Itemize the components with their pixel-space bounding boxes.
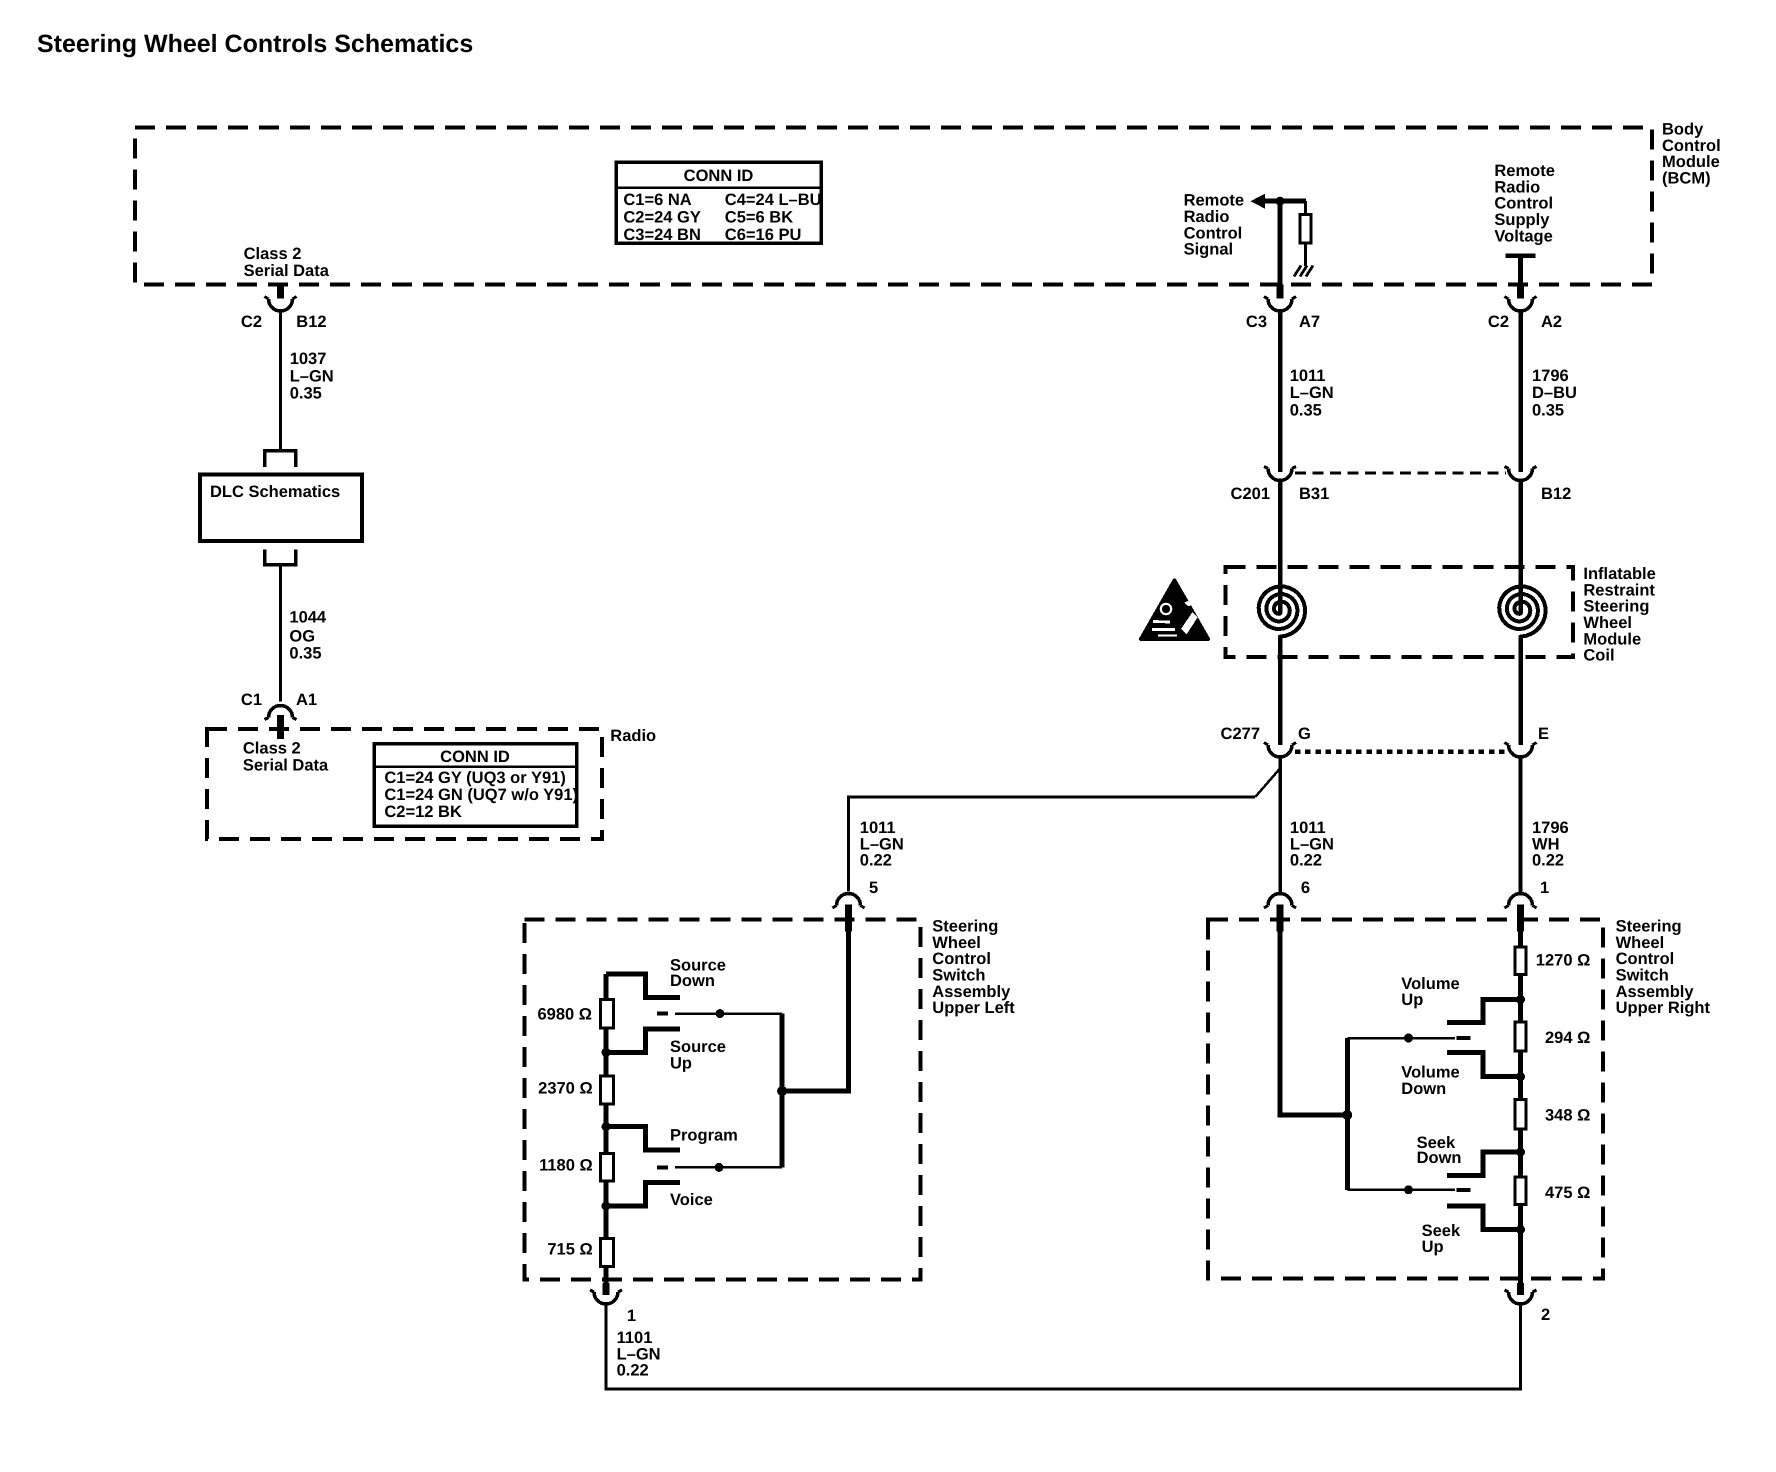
svg-text:C5=6 BK: C5=6 BK (725, 209, 793, 227)
Radio dashed box (207, 729, 602, 839)
svg-text:Remote: Remote (1184, 192, 1245, 210)
svg-text:294 Ω: 294 Ω (1545, 1029, 1590, 1047)
svg-text:(BCM): (BCM) (1662, 169, 1711, 187)
wire pin5 internal (846, 932, 851, 1092)
svg-text:C4=24 L–BU: C4=24 L–BU (725, 191, 822, 209)
svg-text:CONN ID: CONN ID (440, 748, 510, 766)
svg-text:Body: Body (1662, 121, 1704, 139)
wire common bus (right box) (1345, 1038, 1350, 1190)
svg-text:Voice: Voice (670, 1191, 713, 1209)
wire chain r to border (1518, 1206, 1523, 1283)
svg-text:A1: A1 (296, 691, 317, 709)
svg-text:0.35: 0.35 (289, 645, 321, 663)
svg-text:2370 Ω: 2370 Ω (538, 1079, 593, 1097)
junction bus right (1342, 1110, 1352, 1120)
wire pin6 internal (1280, 932, 1347, 1116)
switch Source Up fixed contact (606, 1029, 680, 1053)
switch Voice fixed contact (606, 1183, 680, 1206)
wire 1044 OG 0.35 (279, 565, 282, 702)
svg-text:Coil: Coil (1583, 647, 1614, 665)
wire label 1011 L-GN 0.22 (right) (1290, 819, 1334, 870)
svg-text:Source: Source (670, 1038, 726, 1056)
wire signal horizontal (1263, 199, 1306, 204)
connector C1 / A1 (radio entry) (241, 691, 317, 739)
svg-text:Class 2: Class 2 (244, 245, 302, 263)
svg-text:Steering: Steering (1616, 918, 1682, 936)
svg-text:D–BU: D–BU (1532, 384, 1577, 402)
warning triangle (SRS) (1141, 581, 1208, 640)
svg-text:Signal: Signal (1184, 241, 1234, 259)
connector pin 2 (exit right box) (1505, 1283, 1551, 1324)
svg-text:0.22: 0.22 (1532, 852, 1564, 870)
connector pin 5 (entry) (833, 879, 879, 932)
connector E (in-line) (1505, 725, 1550, 757)
svg-text:Restraint: Restraint (1583, 581, 1655, 599)
wire C201 link (dashed) (1295, 472, 1506, 475)
wire signal vertical (BCM) (1278, 201, 1283, 284)
svg-text:6980 Ω: 6980 Ω (537, 1006, 592, 1024)
connector pin 1 (entry right) (1505, 879, 1550, 947)
left switch assembly label (932, 918, 1015, 1018)
switch Volume Up fixed contact (1447, 999, 1520, 1022)
wire B12 to coil (1518, 480, 1523, 614)
resistor 2370 (600, 1076, 613, 1104)
wire chain r seg1 (1518, 976, 1523, 1021)
wire 1037 L-GN 0.35 (279, 311, 282, 451)
svg-text:2: 2 (1541, 1306, 1550, 1324)
svg-text:Steering Wheel Controls Schema: Steering Wheel Controls Schematics (37, 30, 473, 58)
svg-text:Assembly: Assembly (1616, 983, 1695, 1001)
svg-text:Program: Program (670, 1127, 738, 1145)
svg-text:Up: Up (1401, 991, 1423, 1009)
svg-text:0.22: 0.22 (1290, 852, 1322, 870)
svg-text:C3: C3 (1246, 313, 1267, 331)
svg-text:Down: Down (1417, 1149, 1462, 1167)
wire horizontal to pin 5 (849, 797, 1256, 892)
svg-text:Radio: Radio (610, 727, 656, 745)
connector C277 / G (in-line) (1221, 725, 1311, 757)
svg-text:C201: C201 (1231, 485, 1270, 503)
coil right (spiral) (1499, 586, 1545, 636)
svg-text:L–GN: L–GN (290, 368, 334, 386)
svg-text:0.35: 0.35 (1290, 401, 1322, 419)
svg-text:348 Ω: 348 Ω (1545, 1106, 1590, 1124)
svg-text:1: 1 (627, 1307, 636, 1325)
wire chain seg2 (604, 1029, 609, 1074)
svg-text:0.35: 0.35 (1532, 401, 1564, 419)
svg-text:Inflatable: Inflatable (1583, 565, 1655, 583)
svg-text:CONN ID: CONN ID (684, 167, 754, 185)
svg-text:Control: Control (1616, 950, 1675, 968)
resistor 348 (1515, 1100, 1526, 1130)
switch Program fixed contact (606, 1127, 680, 1150)
resistor 475 (1515, 1177, 1526, 1205)
svg-text:C1=6 NA: C1=6 NA (623, 191, 691, 209)
right switch assembly label (1616, 918, 1711, 1018)
svg-text:WH: WH (1532, 835, 1560, 853)
junction bus left (777, 1086, 787, 1096)
node Remote Radio Control Signal label (1184, 192, 1245, 259)
resistor 1270 (1515, 947, 1526, 975)
supply terminal bar (1506, 253, 1536, 258)
svg-text:L–GN: L–GN (1290, 835, 1334, 853)
node Remote Radio Control Supply Voltage label (1494, 162, 1555, 245)
svg-text:G: G (1298, 725, 1311, 743)
svg-text:0.22: 0.22 (860, 852, 892, 870)
switch Source Down fixed contact (606, 974, 680, 998)
right switch assembly dashed box (1208, 920, 1603, 1279)
wire chain r seg3 (1518, 1131, 1523, 1176)
svg-text:Control: Control (932, 950, 991, 968)
wire label 1796 WH 0.22 (1532, 819, 1569, 870)
switch Seek Down fixed contact (1447, 1152, 1520, 1175)
wire to resistor (1304, 201, 1307, 213)
svg-text:Radio: Radio (1494, 178, 1540, 196)
connector C3 / A7 (1246, 285, 1320, 332)
connector B12 (in-line right) (1505, 467, 1572, 504)
svg-text:C2: C2 (241, 313, 262, 331)
svg-text:Module: Module (1583, 630, 1641, 648)
wire resistor chain (left) (604, 974, 609, 998)
svg-text:B12: B12 (296, 313, 326, 331)
svg-text:C1=24 GN (UQ7 w/o Y91): C1=24 GN (UQ7 w/o Y91) (384, 786, 578, 804)
svg-text:Supply: Supply (1494, 211, 1550, 229)
wire bus to pin5 (782, 1089, 851, 1094)
svg-text:C2=12 BK: C2=12 BK (384, 803, 462, 821)
svg-text:Control: Control (1494, 195, 1553, 213)
svg-text:715 Ω: 715 Ω (547, 1241, 592, 1259)
resistor 715 (600, 1239, 613, 1267)
connector C201 / B31 (in-line) (1231, 467, 1330, 504)
left switch assembly dashed box (525, 920, 921, 1280)
svg-text:Wheel: Wheel (1616, 934, 1665, 952)
svg-text:Volume: Volume (1401, 1064, 1459, 1082)
connector C2 / B12 (BCM exit) (241, 285, 327, 332)
svg-text:B12: B12 (1541, 485, 1571, 503)
coil module label (1583, 565, 1655, 665)
svg-text:Class 2: Class 2 (243, 740, 301, 758)
svg-text:Remote: Remote (1494, 162, 1555, 180)
svg-text:Up: Up (1422, 1238, 1444, 1256)
svg-text:B31: B31 (1299, 485, 1329, 503)
svg-text:5: 5 (869, 879, 878, 897)
svg-text:Serial Data: Serial Data (243, 756, 329, 774)
CONN ID table (radio) (374, 744, 578, 826)
svg-text:L–GN: L–GN (860, 835, 904, 853)
wire chain r seg2 (1518, 1052, 1523, 1098)
svg-text:1101: 1101 (617, 1329, 653, 1347)
node Class 2 Serial Data (radio) (243, 740, 329, 775)
signal arrow (1251, 194, 1266, 209)
connector pin 1 (exit left box) (590, 1283, 636, 1325)
wire G link (dashed) (1295, 749, 1506, 754)
svg-text:475 Ω: 475 Ω (1545, 1184, 1590, 1202)
svg-text:1270 Ω: 1270 Ω (1536, 952, 1591, 970)
svg-text:Switch: Switch (932, 967, 985, 985)
svg-text:1: 1 (1540, 879, 1549, 897)
BCM label (1662, 121, 1721, 188)
svg-text:Serial Data: Serial Data (244, 262, 330, 280)
svg-text:C6=16 PU: C6=16 PU (725, 226, 802, 244)
svg-text:1011: 1011 (1290, 819, 1326, 837)
svg-text:6: 6 (1301, 879, 1310, 897)
svg-text:A7: A7 (1299, 313, 1320, 331)
svg-text:C1: C1 (241, 691, 262, 709)
node Class 2 Serial Data (BCM) (244, 245, 330, 280)
svg-text:Down: Down (670, 972, 715, 990)
svg-text:E: E (1538, 725, 1549, 743)
resistor pull (BCM internal) (1300, 215, 1311, 244)
svg-text:1011: 1011 (1290, 367, 1326, 385)
wire C277 down to pin 6 (1278, 757, 1282, 892)
svg-text:Voltage: Voltage (1494, 227, 1552, 245)
switch volume movable contact (1347, 1034, 1470, 1043)
svg-text:1796: 1796 (1532, 367, 1569, 385)
svg-text:Steering: Steering (1583, 598, 1649, 616)
wire 1011 L-GN 0.35 (1278, 311, 1283, 472)
svg-text:L–GN: L–GN (1290, 384, 1334, 402)
svg-text:L–GN: L–GN (617, 1345, 661, 1363)
switch seek movable contact (1347, 1185, 1470, 1194)
resistor 6980 (600, 999, 613, 1028)
wire coil right exit (1518, 637, 1523, 745)
svg-text:DLC Schematics: DLC Schematics (210, 483, 340, 501)
svg-text:Control: Control (1184, 224, 1243, 242)
coil left (spiral) (1259, 586, 1305, 636)
svg-text:Switch: Switch (1616, 967, 1669, 985)
wire 1796 D-BU 0.35 (1518, 311, 1523, 472)
wire chain to border (604, 1268, 609, 1283)
svg-text:C1=24 GY (UQ3 or Y91): C1=24 GY (UQ3 or Y91) (384, 769, 565, 787)
wire chain seg4 (604, 1183, 609, 1238)
svg-text:Up: Up (670, 1054, 692, 1072)
DLC Schematics box (200, 451, 362, 565)
ground (chassis) (1294, 266, 1313, 277)
svg-text:Assembly: Assembly (932, 983, 1011, 1001)
wire splice diagonal (1255, 769, 1280, 798)
svg-text:1011: 1011 (860, 819, 896, 837)
svg-text:Steering: Steering (932, 918, 998, 936)
svg-text:1044: 1044 (289, 609, 327, 627)
wire supply vertical (BCM) (1518, 256, 1523, 285)
svg-text:1796: 1796 (1532, 819, 1569, 837)
svg-text:1180 Ω: 1180 Ω (539, 1157, 593, 1175)
CONN ID table (BCM) (616, 162, 822, 244)
svg-text:C3=24 BN: C3=24 BN (623, 226, 701, 244)
wire C201 to coil (1278, 480, 1283, 614)
wire common bus (left box) (780, 1014, 785, 1168)
connector C2 / A2 (1488, 285, 1562, 332)
switch Volume Down fixed contact (1447, 1052, 1520, 1076)
switch source movable contact (657, 1009, 782, 1018)
wire resistor to ground (1304, 245, 1307, 266)
wire E down to pin 1 (1519, 757, 1523, 892)
switch Seek Up fixed contact (1447, 1206, 1520, 1230)
wire chain seg3 (604, 1105, 609, 1152)
svg-text:A2: A2 (1541, 313, 1562, 331)
svg-text:1037: 1037 (290, 350, 327, 368)
svg-text:Module: Module (1662, 153, 1720, 171)
svg-text:Control: Control (1662, 137, 1721, 155)
svg-text:Wheel: Wheel (932, 934, 981, 952)
resistor 1180 (600, 1154, 613, 1182)
svg-text:Down: Down (1401, 1080, 1446, 1098)
svg-text:Wheel: Wheel (1583, 614, 1632, 632)
svg-text:Upper Right: Upper Right (1616, 999, 1711, 1017)
wire coil left exit (1278, 637, 1283, 745)
svg-text:0.22: 0.22 (617, 1362, 649, 1380)
svg-text:Upper Left: Upper Left (932, 999, 1015, 1017)
junction signal node (1276, 197, 1285, 206)
svg-text:C2: C2 (1488, 313, 1509, 331)
svg-text:OG: OG (289, 628, 315, 646)
svg-text:Volume: Volume (1401, 975, 1459, 993)
resistor 294 (1515, 1022, 1526, 1051)
svg-text:C2=24 GY: C2=24 GY (623, 209, 701, 227)
svg-text:Radio: Radio (1184, 208, 1230, 226)
connector pin 6 (entry) (1264, 879, 1310, 932)
wire 1101 L-GN 0.22 bottom (606, 1305, 1521, 1390)
svg-text:C277: C277 (1221, 725, 1260, 743)
coil module dashed box (1226, 567, 1573, 657)
switch program movable contact (657, 1163, 782, 1172)
wire label 1011 L-GN 0.22 (left) (860, 819, 904, 870)
BCM dashed box (135, 128, 1652, 285)
svg-text:0.35: 0.35 (290, 384, 322, 402)
